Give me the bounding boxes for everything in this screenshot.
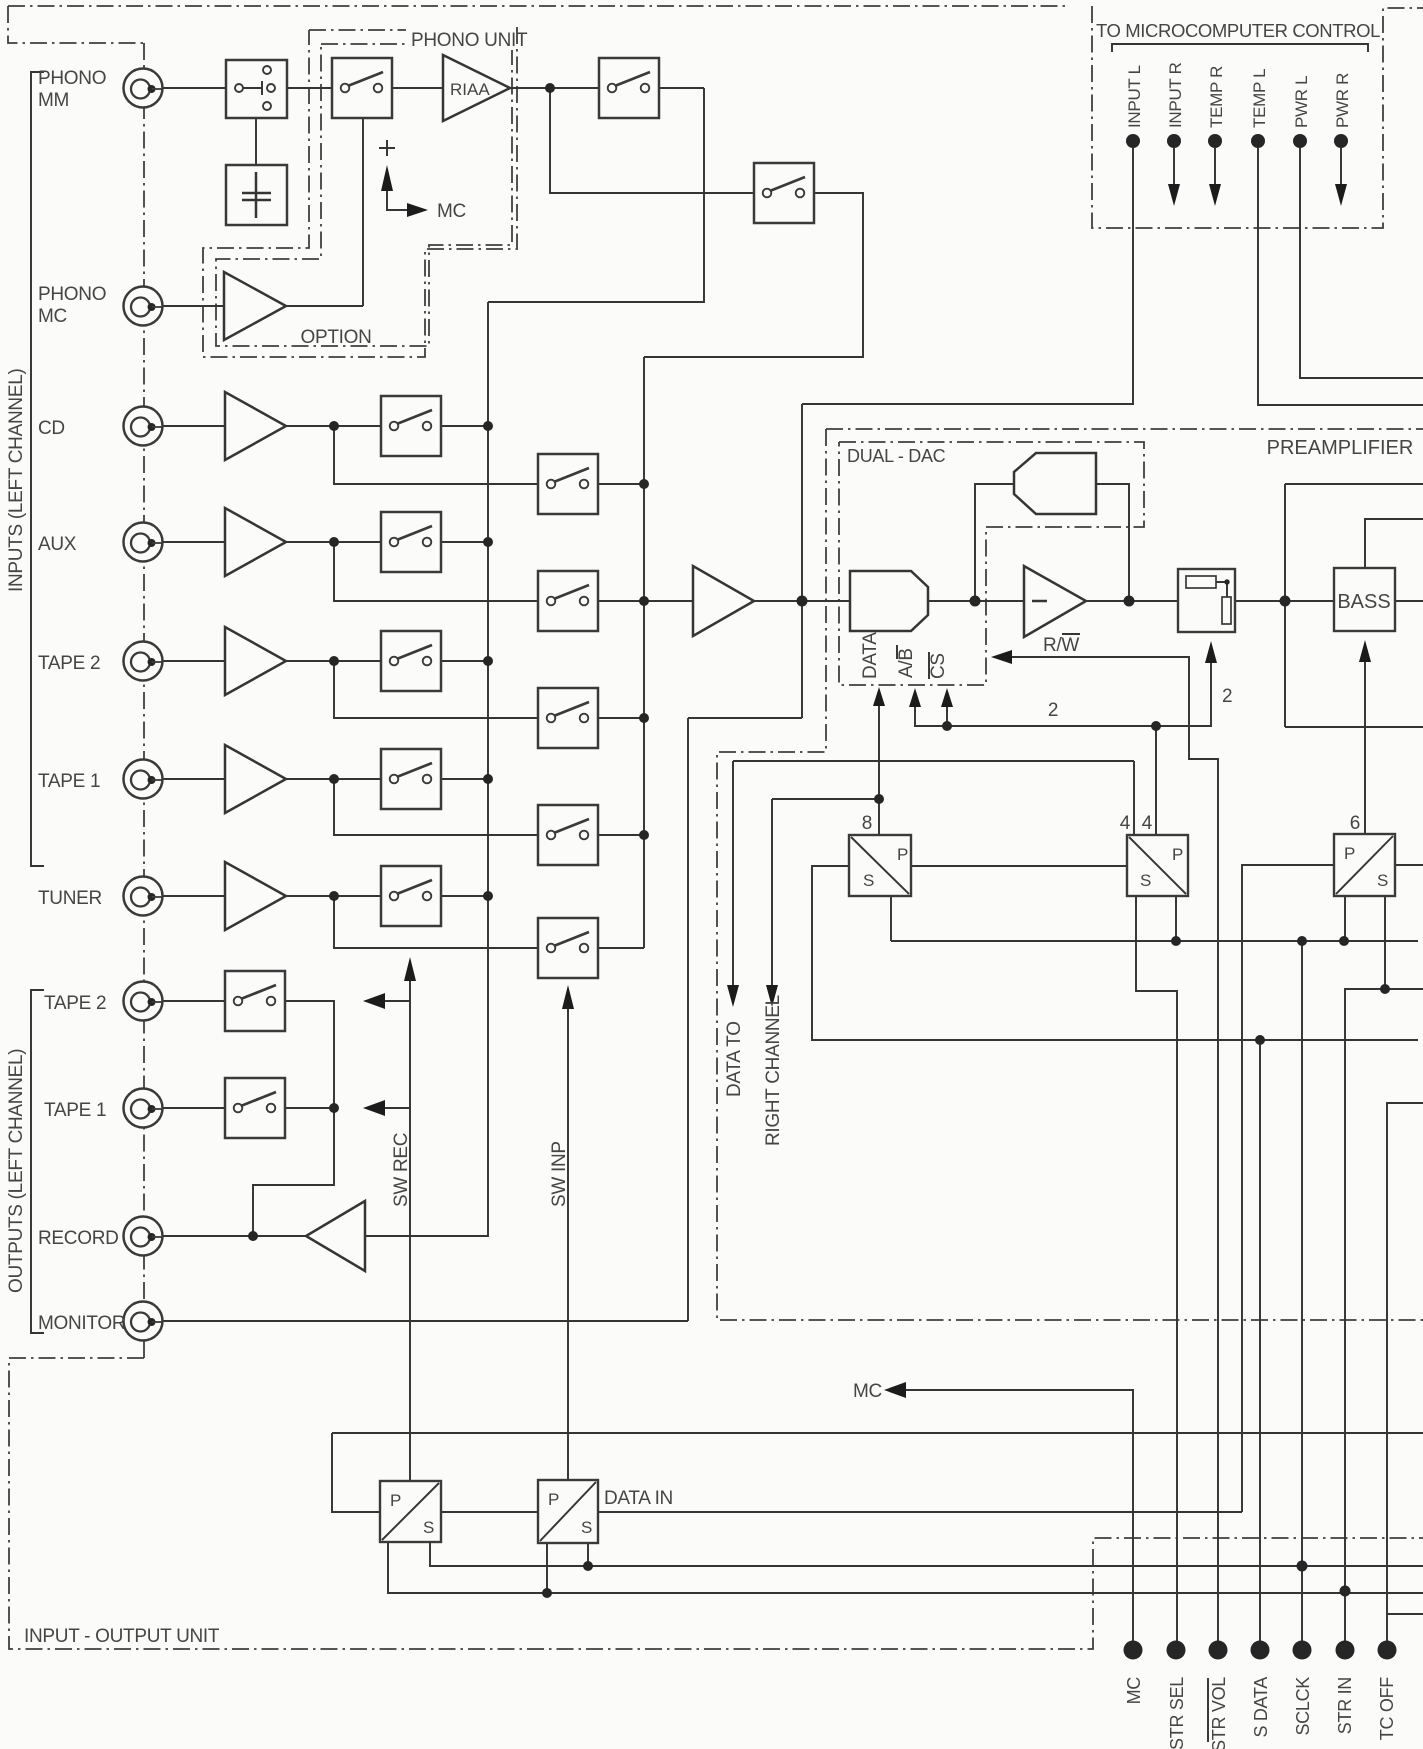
svg-text:DATA IN: DATA IN: [604, 1488, 673, 1509]
svg-text:P: P: [548, 1490, 559, 1509]
svg-text:RECORD: RECORD: [38, 1228, 119, 1249]
svg-text:STR VOL: STR VOL: [1209, 1677, 1229, 1749]
svg-text:P: P: [1344, 844, 1355, 863]
svg-text:PWR L: PWR L: [1292, 76, 1311, 128]
svg-text:PHONO: PHONO: [38, 284, 106, 305]
svg-text:2: 2: [1048, 700, 1058, 721]
svg-text:TC OFF: TC OFF: [1377, 1677, 1397, 1740]
svg-text:S DATA: S DATA: [1251, 1677, 1271, 1738]
svg-text:SW INP: SW INP: [549, 1141, 570, 1207]
svg-text:S: S: [1377, 871, 1388, 890]
svg-text:MM: MM: [38, 90, 69, 111]
svg-text:8: 8: [862, 813, 872, 834]
svg-text:TEMP R: TEMP R: [1207, 66, 1226, 128]
svg-text:MC: MC: [853, 1381, 882, 1402]
svg-text:DUAL - DAC: DUAL - DAC: [847, 446, 946, 466]
svg-text:INPUT L: INPUT L: [1125, 65, 1144, 128]
svg-text:INPUT R: INPUT R: [1166, 62, 1185, 128]
svg-text:DATA TO: DATA TO: [724, 1021, 745, 1097]
svg-text:MC: MC: [1124, 1677, 1144, 1705]
svg-text:PREAMPLIFIER: PREAMPLIFIER: [1267, 437, 1414, 459]
svg-text:S: S: [1140, 871, 1151, 890]
svg-text:MC: MC: [437, 201, 466, 222]
svg-text:R/W: R/W: [1043, 635, 1079, 656]
svg-text:TAPE 1: TAPE 1: [44, 1100, 106, 1121]
svg-text:4: 4: [1142, 813, 1153, 834]
svg-text:DATA: DATA: [860, 632, 881, 679]
svg-text:4: 4: [1120, 813, 1131, 834]
svg-text:MONITOR: MONITOR: [38, 1313, 125, 1334]
svg-text:RIGHT CHANNEL: RIGHT CHANNEL: [763, 995, 784, 1146]
svg-text:S: S: [863, 871, 874, 890]
svg-text:TAPE 2: TAPE 2: [44, 993, 106, 1014]
svg-text:AUX: AUX: [38, 534, 77, 555]
svg-text:BASS: BASS: [1337, 591, 1390, 613]
svg-text:P: P: [897, 845, 908, 864]
svg-text:SCLCK: SCLCK: [1293, 1677, 1313, 1736]
svg-text:OUTPUTS (LEFT CHANNEL): OUTPUTS (LEFT CHANNEL): [6, 1049, 27, 1293]
svg-text:S: S: [581, 1518, 592, 1537]
svg-text:STR SEL: STR SEL: [1167, 1677, 1187, 1749]
svg-text:CD: CD: [38, 418, 65, 439]
svg-text:PHONO: PHONO: [38, 68, 106, 89]
svg-text:S: S: [423, 1518, 434, 1537]
svg-text:INPUT - OUTPUT UNIT: INPUT - OUTPUT UNIT: [24, 1626, 220, 1647]
svg-text:A/B: A/B: [896, 648, 917, 678]
svg-text:TEMP L: TEMP L: [1250, 69, 1269, 128]
svg-text:TAPE 2: TAPE 2: [38, 653, 100, 674]
svg-text:INPUTS (LEFT CHANNEL): INPUTS (LEFT CHANNEL): [6, 369, 27, 593]
svg-text:2: 2: [1222, 686, 1232, 707]
svg-text:PHONO UNIT: PHONO UNIT: [411, 30, 528, 51]
svg-text:STR IN: STR IN: [1335, 1677, 1355, 1734]
svg-text:OPTION: OPTION: [300, 327, 371, 348]
svg-text:TUNER: TUNER: [38, 888, 102, 909]
svg-text:RIAA: RIAA: [450, 80, 490, 99]
svg-text:SW REC: SW REC: [391, 1133, 412, 1207]
svg-text:PWR R: PWR R: [1333, 73, 1352, 128]
svg-text:CS: CS: [928, 653, 949, 679]
svg-text:6: 6: [1350, 813, 1360, 834]
svg-text:TO MICROCOMPUTER CONTROL: TO MICROCOMPUTER CONTROL: [1096, 20, 1380, 41]
svg-text:MC: MC: [38, 306, 67, 327]
svg-text:P: P: [1172, 845, 1183, 864]
svg-text:TAPE 1: TAPE 1: [38, 771, 100, 792]
svg-text:P: P: [390, 1491, 401, 1510]
